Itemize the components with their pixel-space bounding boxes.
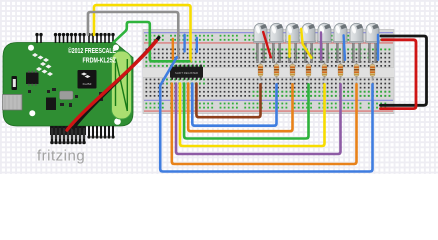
connector [12, 76, 18, 90]
resistor R5 [322, 62, 327, 81]
purple jumper [320, 33, 322, 60]
gray wire board to breadboard [88, 12, 178, 58]
passives [28, 88, 103, 107]
rail holes [145, 35, 386, 109]
breadboard holes [146, 49, 391, 97]
breadboard [143, 30, 394, 114]
IC U2 [26, 73, 39, 85]
black wire right loop [381, 36, 427, 105]
mounting holes [28, 45, 34, 51]
svg-text:©2012 FREESCALE: ©2012 FREESCALE [68, 47, 116, 55]
resistor R1 [258, 62, 263, 81]
crystal Y1 [60, 91, 74, 100]
wire loop yellow [180, 84, 325, 147]
LED4 [301, 23, 316, 62]
LED6 [333, 23, 348, 62]
wire loop purple [176, 84, 341, 155]
MCU U1 KL25Z [78, 70, 97, 89]
resistor R3 [290, 62, 295, 81]
LED3 [285, 23, 300, 62]
wire loop brown [196, 84, 260, 118]
orange jumper rail to row [172, 39, 174, 59]
wire loop blue outer [160, 57, 372, 171]
shift register IC body [170, 67, 203, 78]
svg-text:SHIFT REGISTER: SHIFT REGISTER [175, 71, 198, 75]
green wire board to breadboard [114, 22, 190, 61]
freescale silkscreen logo [32, 53, 53, 76]
svg-text:FRDM-KL25Z: FRDM-KL25Z [83, 58, 117, 65]
svg-text:fritzing: fritzing [37, 148, 85, 165]
wire loop orange [188, 84, 292, 132]
FRDM-KL25Z board [3, 43, 133, 127]
bottom header J10 [87, 126, 114, 139]
top header pins J1 J2 [35, 33, 114, 43]
blue jumper 2 [196, 38, 198, 52]
yellow jumper B [301, 29, 311, 58]
wire loop green [184, 84, 308, 139]
LED7 [349, 23, 364, 62]
resistor R7 [354, 62, 359, 81]
bottom header J9 [50, 126, 86, 144]
red wire right loop [381, 40, 417, 109]
red jumper LED1 [263, 32, 271, 57]
red wire board to rail [67, 41, 156, 130]
resistor R4 [306, 62, 311, 81]
yellow wire board to breadboard [94, 5, 191, 61]
black wire board to rail [74, 38, 159, 129]
LED1 [253, 23, 268, 62]
shift register IC pins [171, 65, 202, 80]
blue jumper C [344, 35, 345, 60]
blue jumper 1 [183, 35, 185, 52]
IC U3 [46, 98, 56, 111]
LED8 [365, 23, 380, 62]
svg-text:KL25Z: KL25Z [83, 82, 92, 86]
wire loop orange2 [172, 84, 357, 165]
blue jumper D right of LED8 [377, 35, 379, 60]
highlighted holes [145, 49, 390, 97]
resistor R2 [274, 62, 279, 81]
LED2 [269, 23, 284, 62]
resistor R6 [338, 62, 343, 81]
USB J7 [3, 95, 23, 111]
yellow jumper A [288, 36, 290, 57]
resistor R8 [370, 62, 375, 81]
wire loop blue [192, 84, 276, 126]
touch slider [112, 51, 132, 119]
LED5 [317, 23, 332, 62]
